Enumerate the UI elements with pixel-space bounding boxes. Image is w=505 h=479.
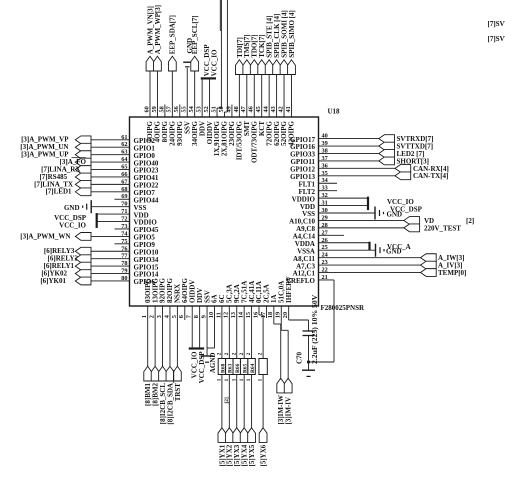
svg-text:EEP_SCL[7]: EEP_SCL[7]: [191, 15, 199, 54]
wire pin 44: [268, 75, 270, 118]
wire pin 11: [221, 306, 223, 359]
wire pin 57: [171, 71, 173, 117]
svg-text:48: 48: [233, 106, 240, 112]
off-page flag [3]A_PWM_WN: [75, 232, 91, 240]
off-page flag [3]IM-IW: [277, 378, 285, 393]
off-page flag [3]IM-IV: [284, 378, 292, 393]
wire pin 1: [147, 306, 149, 366]
svg-text:VCC_IO: VCC_IO: [211, 49, 219, 76]
svg-text:59: 59: [151, 106, 158, 112]
svg-text:CAN-TX[4]: CAN-TX[4]: [413, 172, 448, 180]
ground symbol GND: [375, 244, 377, 257]
wire pin 7: [191, 306, 193, 349]
wire pin 8: [199, 306, 201, 349]
svg-text:13: 13: [230, 312, 237, 318]
off-page flag SPIB_SIMO [4]: [288, 60, 296, 75]
svg-text:[7]LED1: [7]LED1: [45, 188, 72, 196]
wire stub pin 56: [179, 105, 181, 118]
wire pin 61: [91, 139, 130, 141]
wire pin 68: [91, 191, 130, 193]
off-page flag A_IV[3]: [421, 261, 437, 269]
svg-text:51: 51: [210, 106, 217, 112]
svg-text:18: 18: [267, 312, 274, 318]
wire pin 62: [91, 146, 130, 148]
wire pin 37: [319, 160, 379, 162]
wire pin 46: [253, 75, 255, 118]
svg-text:R64: R64: [250, 363, 256, 373]
power bar VCC bottom: [189, 347, 204, 349]
off-page flag [7]RS485: [75, 173, 91, 181]
svg-text:42: 42: [277, 106, 284, 112]
wire C70 to ground: [308, 336, 310, 371]
svg-text:GND: GND: [386, 248, 402, 256]
ground symbol GND top: [185, 66, 189, 68]
off-page flag TCK[7]: [258, 60, 266, 75]
wire pin 48: [238, 75, 240, 118]
svg-text:[2]: [2]: [224, 397, 230, 403]
resistor R66: [233, 359, 240, 375]
wire pin 59: [156, 71, 158, 117]
svg-text:1: 1: [141, 315, 148, 318]
off-page flag [5]YX6: [259, 428, 267, 443]
off-page flag [3]A_PWM_UN: [75, 143, 91, 151]
power bar VCC top: [201, 77, 216, 79]
svg-text:12: 12: [223, 312, 230, 318]
off-page flag SPIB_SOMI [4]: [280, 60, 288, 75]
off-page flag TRST: [173, 366, 181, 381]
svg-text:2: 2: [217, 352, 223, 355]
svg-text:46: 46: [248, 106, 255, 112]
svg-text:57: 57: [166, 106, 173, 112]
off-page flag A_PWM_WP[3]: [154, 56, 162, 71]
svg-text:[5]YX5: [5]YX5: [248, 444, 256, 466]
svg-text:8: 8: [193, 315, 200, 318]
wire pin 72: [97, 221, 130, 223]
svg-text:20: 20: [282, 312, 289, 318]
power bar VCC_A: [368, 242, 370, 251]
wire pin 79: [91, 273, 130, 275]
wire pin 53: [201, 79, 203, 118]
wire pin 39: [319, 145, 379, 147]
off-page flag LED2 [7]: [379, 150, 395, 158]
off-page flag [5]YX1: [218, 428, 226, 443]
wire pin 5: [176, 306, 178, 366]
off-page flag SPIB_CLK [4]: [273, 60, 281, 75]
power bar VCC right: [367, 197, 369, 210]
off-page flag SPIB_STE [4]: [265, 60, 273, 75]
off-page flag [3]A_PWM_VP: [75, 136, 91, 144]
wire pin 77: [91, 258, 130, 260]
svg-text:54: 54: [188, 105, 195, 112]
off-page flag [6]RELY1: [75, 262, 91, 270]
off-page flag [7]LINA_RX: [75, 166, 91, 174]
svg-text:5: 5: [171, 315, 178, 318]
wire pin 40: [319, 138, 379, 140]
wire pin 32: [319, 197, 369, 199]
wire pin 3: [162, 306, 164, 366]
wire pin 12: [228, 306, 230, 359]
wire pin 29: [319, 219, 404, 221]
wire pin 23: [319, 264, 421, 266]
wire pin 38: [319, 152, 379, 154]
wire pin 47: [246, 75, 248, 118]
wire pin 13: [236, 306, 238, 359]
wire pin 74: [91, 235, 130, 237]
svg-text:56: 56: [173, 106, 180, 112]
svg-text:3: 3: [156, 315, 163, 318]
svg-text:EEP_SDA[7]: EEP_SDA[7]: [169, 15, 177, 54]
resistor R67: [259, 359, 267, 375]
svg-text:F280025PNSR: F280025PNSR: [321, 304, 366, 312]
wire pin 65: [91, 169, 130, 171]
off-page flag CAN-TX[4]: [395, 172, 411, 180]
off-page flag CAN-RX[4]: [395, 164, 411, 172]
off-page flag [5]YX4: [240, 428, 248, 443]
wire stub pin 73: [115, 228, 130, 230]
svg-text:2.2uF (225) 10% 50V: 2.2uF (225) 10% 50V: [310, 294, 319, 364]
wire pin 70: [91, 206, 129, 208]
wire pin 55: [186, 68, 188, 117]
wire pin 60: [149, 71, 151, 117]
off-page flag TMS[7]: [243, 60, 251, 75]
svg-text:53: 53: [196, 106, 203, 112]
wire pin 71: [97, 213, 130, 215]
svg-text:[7]SVT: [7]SVT: [488, 20, 505, 28]
wire pin 54: [194, 71, 196, 117]
MCU U18 body: [130, 117, 319, 306]
svg-text:43: 43: [270, 106, 277, 112]
off-page flag VD: [404, 217, 420, 225]
svg-text:TEMP[0]: TEMP[0]: [438, 269, 466, 277]
svg-text:42OIPG: 42OIPG: [288, 120, 296, 145]
off-page flag [6]YK02: [75, 270, 91, 278]
wire pin 76: [91, 250, 130, 252]
wire stub pin 58: [164, 105, 166, 118]
wire stub pin 69: [115, 198, 130, 200]
wire pin 43: [276, 75, 278, 118]
svg-text:6: 6: [178, 315, 185, 318]
svg-text:2: 2: [224, 352, 230, 355]
wire pin 26: [319, 242, 370, 244]
svg-text:10: 10: [208, 312, 215, 318]
off-page flag A_PWM_VN[3]: [146, 56, 154, 71]
svg-text:44: 44: [263, 105, 270, 112]
svg-text:45: 45: [255, 106, 262, 112]
off-page flag [5]YX3: [233, 428, 241, 443]
off-page flag EEP_SCL[7]: [191, 56, 199, 71]
off-page flag [3]A_PWM_UP: [75, 151, 91, 159]
wire to flag YX2: [228, 375, 230, 428]
wire pin 66: [91, 176, 130, 178]
off-page flag [6]RELY3: [75, 247, 91, 255]
wire pin 10: [213, 306, 215, 348]
svg-text:60: 60: [143, 106, 150, 112]
wire pin 18: [273, 306, 275, 324]
svg-text:7: 7: [186, 315, 193, 318]
wire to flag YX3: [236, 375, 238, 428]
svg-text:GND: GND: [64, 204, 80, 212]
power bar VCC left: [96, 213, 98, 228]
off-page flag [7]LINA_TX: [75, 180, 91, 188]
wire to flag YX5: [251, 375, 253, 428]
wire to flag YX1: [221, 375, 223, 428]
svg-text:16: 16: [252, 312, 259, 318]
wire pin 15: [251, 306, 253, 359]
off-page flag [8]I2CB_SDA: [166, 366, 174, 381]
ground symbol GND: [374, 207, 376, 220]
wire stub pin 27: [319, 234, 345, 236]
wire pin 78: [91, 265, 130, 267]
wire pin 14: [243, 306, 245, 359]
svg-text:[7]SVT: [7]SVT: [488, 35, 505, 43]
svg-text:2: 2: [149, 315, 156, 318]
wire stub pin 17: [265, 306, 267, 318]
wire pin 25: [319, 249, 376, 251]
svg-text:VCC_IO: VCC_IO: [59, 222, 86, 230]
wire pin 19: [280, 306, 282, 330]
capacitor C70: [303, 330, 315, 332]
svg-text:2: 2: [258, 352, 264, 355]
svg-text:220V_TEST: 220V_TEST: [424, 224, 461, 232]
off-page flag [8]I2CB_SCL: [159, 366, 167, 381]
svg-text:[3]IM-IV: [3]IM-IV: [285, 397, 293, 425]
svg-text:A_PWM_WP[3]: A_PWM_WP[3]: [154, 5, 162, 54]
svg-text:C70: C70: [296, 351, 304, 364]
off-page flag [5]YX5: [248, 428, 256, 443]
wire pin 50 X2: [223, 112, 225, 117]
off-page flag TDI[7]: [235, 60, 243, 75]
wire pin 36: [319, 167, 396, 169]
wire pin 67: [91, 183, 130, 185]
ground symbol GND: [302, 369, 315, 371]
wire pin 30: [319, 212, 376, 214]
off-page flag A_IW[3]: [421, 254, 437, 262]
wire pin 41: [290, 75, 292, 118]
wire pin 21 VREFLO: [319, 279, 335, 281]
off-page flag TDO[7]: [250, 60, 258, 75]
off-page flag [6]RELY2: [75, 255, 91, 263]
wire pin 24: [319, 257, 421, 259]
wire pin 28: [319, 227, 404, 229]
wire pin 22: [319, 272, 421, 274]
svg-text:19: 19: [275, 312, 282, 318]
off-page flag [7]LED1: [75, 188, 91, 196]
off-page flag SHORT[3]: [379, 157, 395, 165]
wire stub pin 75: [115, 243, 130, 245]
off-page flag TEMP[0]: [421, 269, 437, 277]
wire to flag YX4: [243, 375, 245, 428]
svg-text:55: 55: [181, 106, 188, 112]
off-page flag [3]A_FO: [75, 158, 91, 166]
off-page flag [6]YK01: [75, 277, 91, 285]
svg-text:9: 9: [200, 315, 207, 318]
svg-text:2: 2: [231, 352, 237, 355]
wire pin 31: [319, 205, 369, 207]
wire pin 52: [209, 79, 211, 118]
wire pin 80: [91, 280, 130, 282]
svg-text:IHFERV: IHFERV: [285, 276, 293, 303]
svg-text:[3]A_PWM_WN: [3]A_PWM_WN: [20, 232, 70, 240]
wire stub pin 33: [319, 190, 338, 192]
wire pin 42: [283, 75, 285, 118]
svg-text:[5]YX6: [5]YX6: [260, 444, 268, 466]
svg-text:52: 52: [203, 106, 210, 112]
svg-text:[2]: [2]: [466, 217, 474, 225]
wire stub pin 34: [319, 182, 338, 184]
svg-text:15: 15: [245, 312, 252, 318]
off-page flag 220V_TEST: [404, 224, 420, 232]
svg-text:2: 2: [246, 352, 252, 355]
off-page flag SVTTXD[7]: [379, 142, 395, 150]
svg-text:58: 58: [158, 106, 165, 112]
wire stub pin 49: [231, 105, 233, 118]
svg-text:SPIB_SIMO [4]: SPIB_SIMO [4]: [288, 10, 296, 58]
svg-text:47: 47: [240, 106, 247, 112]
svg-text:U18: U18: [328, 108, 341, 116]
resistor R68: [218, 359, 225, 375]
wire pin 20 VREFHI: [288, 306, 290, 320]
svg-text:4: 4: [163, 314, 170, 318]
wire pin 35: [319, 175, 396, 177]
svg-text:TRST: TRST: [174, 383, 182, 402]
off-page flag [8]BM1: [144, 366, 152, 381]
wire to flag YX6: [262, 375, 264, 428]
svg-text:GND: GND: [387, 211, 403, 219]
off-page flag SVTRXD[7]: [379, 135, 395, 143]
svg-text:2: 2: [239, 352, 245, 355]
wire stub pin 6: [184, 306, 186, 320]
svg-text:14: 14: [238, 311, 245, 318]
ground symbol GND: [90, 200, 92, 213]
svg-text:41: 41: [285, 106, 292, 112]
wire pin 51 X1: [216, 108, 218, 117]
resistor R64: [248, 359, 255, 375]
off-page flag [5]YX2: [225, 428, 233, 443]
wire pin 64: [91, 161, 130, 163]
svg-text:11: 11: [215, 312, 222, 318]
ground symbol AGND: [201, 355, 214, 357]
wire pin 16: [258, 306, 260, 315]
wire pin 9: [206, 306, 208, 356]
off-page flag [8]BM2: [151, 366, 159, 381]
off-page flag EEP_SDA[7]: [168, 56, 176, 71]
wire pin 4: [169, 306, 171, 366]
wire pin 45: [261, 75, 263, 118]
resistor R63: [226, 359, 233, 375]
wire pin 2: [154, 306, 156, 366]
svg-text:[6]YK01: [6]YK01: [40, 277, 66, 285]
junction dot: [307, 360, 310, 363]
resistor R65: [240, 359, 247, 375]
wire pin 63: [91, 154, 130, 156]
